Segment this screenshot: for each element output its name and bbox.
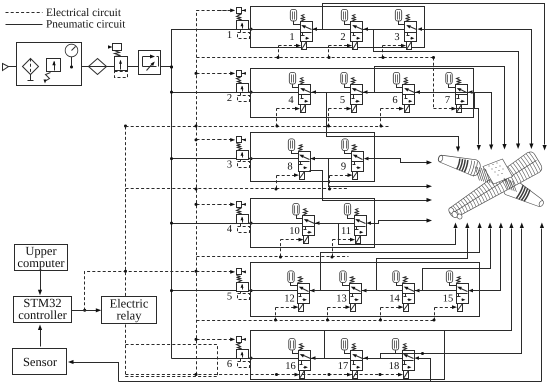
- box Sensor: [13, 349, 67, 375]
- valve V14: [381, 271, 420, 312]
- wire electrical riser valve V7 (from bus A): [433, 58, 435, 109]
- air inlet triangle: [3, 64, 9, 71]
- svg-text:11: 11: [341, 226, 351, 237]
- arrow into aircraft left 1: [427, 160, 433, 164]
- manifold box group E: [251, 263, 480, 317]
- arrow into aircraft top 1: [456, 147, 460, 153]
- node bus E riser V14: [379, 319, 382, 322]
- wire electrical riser valve V3: [382, 46, 384, 58]
- wire valve V17 output to bottom arrow 7: [368, 229, 522, 359]
- wire group D supply line: [251, 223, 355, 225]
- node bus E riser V13: [326, 319, 329, 322]
- arrow into relay: [96, 308, 102, 312]
- node bus branch C: [170, 157, 173, 160]
- svg-text:2: 2: [340, 32, 345, 43]
- wire electrical bus row B (dashed): [126, 126, 391, 128]
- manifold box group F: [251, 331, 445, 380]
- regulator R3: [219, 137, 250, 171]
- node bus / air-line junction: [170, 66, 173, 69]
- node group B inlet: [250, 91, 253, 94]
- wire electrical bus row A (dashed): [197, 57, 434, 59]
- legend pneumatic-circuit solid line: [6, 19, 127, 31]
- node bus E riser V12: [274, 319, 277, 322]
- valve V12: [276, 271, 315, 312]
- wire to left arrow 3: [310, 171, 427, 201]
- svg-text:7: 7: [445, 95, 450, 106]
- node crossing x196: [195, 270, 198, 273]
- node bus B riser V5: [327, 125, 330, 128]
- wire electrical riser valve V1: [278, 46, 280, 58]
- wire regulator R2 output: [249, 92, 251, 94]
- pressure gauge G1: [65, 44, 78, 66]
- node electrical branch R2: [195, 72, 198, 75]
- valve V11: [333, 203, 372, 243]
- node bus B x196: [195, 125, 198, 128]
- node bus C x196: [195, 188, 198, 191]
- arrow into stm32: [38, 290, 42, 296]
- wire electrical riser valve V4: [276, 109, 278, 127]
- wire valve V7 output stub: [472, 93, 475, 109]
- node bus A riser V7: [432, 56, 435, 59]
- valve V4: [277, 72, 317, 112]
- valve V7: [434, 72, 473, 112]
- node bus D riser V10: [279, 256, 282, 259]
- wire valve V4 output to top arrow 1: [316, 93, 459, 147]
- wire valve V9 output to left arrow 1: [368, 159, 427, 163]
- node group A inlet: [250, 28, 253, 31]
- manifold box group B: [251, 69, 474, 118]
- filter F1 (diamond with drain): [23, 59, 39, 81]
- valve V17: [329, 338, 369, 378]
- wire group F supply line: [251, 358, 403, 360]
- solenoid regulator on air line: [108, 44, 128, 78]
- node bus branch B: [170, 91, 173, 94]
- svg-text:Sensor: Sensor: [23, 355, 58, 369]
- svg-text:1: 1: [227, 30, 232, 41]
- regulator R6: [219, 337, 250, 370]
- node bus F riser V18: [379, 373, 382, 376]
- box Electric relay: [102, 296, 157, 323]
- wire branch to regulator RD: [172, 223, 237, 225]
- wire electrical riser valve V13: [327, 308, 329, 321]
- svg-text:13: 13: [336, 293, 347, 304]
- regulator R2: [219, 71, 250, 104]
- wire regulator R1 output: [249, 29, 251, 31]
- regulator R5: [219, 269, 250, 303]
- wire stm32 to relay: [72, 310, 97, 312]
- node bus C riser V8: [275, 188, 278, 191]
- wire electrical riser valve V15: [434, 308, 436, 321]
- valve V13: [328, 271, 367, 312]
- wire valve V11 output to left arrow 4: [371, 221, 427, 224]
- wire electrical branch to regulator R2: [197, 73, 219, 75]
- arrow into aircraft bottom 8: [540, 223, 544, 229]
- node bus branch E: [170, 289, 173, 292]
- arrow into aircraft bottom 1: [453, 223, 457, 229]
- wire valve V5 output to top arrow 4: [367, 67, 505, 145]
- arrow sensor-to-stm32: [38, 325, 42, 331]
- node bus branch D: [170, 222, 173, 225]
- svg-text:15: 15: [443, 293, 454, 304]
- regulator R1: [219, 8, 250, 41]
- wire electrical bus row D (dashed): [197, 256, 349, 258]
- wire electrical riser valve V9: [329, 176, 331, 189]
- node bus D riser V11: [331, 256, 334, 259]
- svg-text:2: 2: [227, 93, 232, 104]
- wire electrical left bus (dashed): [125, 127, 127, 345]
- node left bus top: [124, 125, 127, 128]
- valve V2: [329, 9, 369, 49]
- wire electrical riser valve V6: [380, 109, 382, 127]
- node bus F riser V17: [328, 373, 331, 376]
- wire electrical branch to regulator R4: [197, 204, 219, 206]
- wire electrical riser valve V8: [276, 176, 278, 189]
- node bus A riser V2: [328, 56, 331, 59]
- wire electrical bus row E (dashed): [197, 320, 434, 322]
- valve V16: [277, 338, 316, 378]
- svg-text:14: 14: [389, 293, 400, 304]
- node crossing x125: [124, 270, 127, 273]
- wire group C supply line: [251, 158, 352, 160]
- wire valve V14 output to bottom arrow 4: [419, 229, 491, 291]
- valve V5: [329, 72, 368, 112]
- svg-text:16: 16: [285, 361, 296, 372]
- svg-text:8: 8: [287, 161, 292, 172]
- wire branch to regulator RF: [172, 358, 237, 360]
- node bus C riser V9: [328, 188, 331, 191]
- wire electrical bus row F (dashed): [126, 374, 385, 376]
- wire valve V15 output to bottom arrow 5: [473, 229, 501, 291]
- wire electrical branch to regulator R6: [197, 339, 219, 341]
- arrow into sensor: [68, 360, 74, 364]
- node electrical branch R6: [195, 338, 198, 341]
- wire group A supply line: [251, 29, 405, 31]
- wire electrical main bus (vertical, dashed): [197, 11, 231, 375]
- wire valve V10 output to bottom arrow 1: [319, 224, 456, 245]
- svg-text:relay: relay: [117, 309, 143, 323]
- wire regulator R6 output: [249, 358, 251, 360]
- arrow into aircraft left 2: [427, 184, 433, 188]
- svg-text:6: 6: [227, 359, 232, 370]
- wire valve V12 output to bottom arrow 3: [314, 229, 480, 291]
- node bus B riser V6: [380, 125, 383, 128]
- node relay junction: [83, 309, 86, 312]
- regulator R4: [219, 202, 250, 235]
- wire electrical riser valve V10: [280, 240, 282, 257]
- wire electrical riser valve V2: [328, 46, 330, 58]
- valve V6: [381, 72, 421, 112]
- wire group B supply line: [251, 92, 456, 94]
- valve V18: [381, 338, 420, 378]
- svg-text:Pneumatic circuit: Pneumatic circuit: [46, 19, 126, 31]
- arrow into aircraft top 3: [489, 145, 493, 151]
- wire valve V8 output to left arrow 2: [315, 159, 427, 187]
- node group D inlet: [250, 222, 253, 225]
- wire valve V16 output to bottom arrow 6: [315, 229, 512, 359]
- svg-text:12: 12: [284, 293, 295, 304]
- wire bottom bus to bottom arrow 8: [541, 229, 543, 382]
- wire electrical riser valve V11: [332, 240, 334, 257]
- aircraft (morphing wing UAV drawing): [436, 149, 547, 223]
- arrow into aircraft bottom 5: [499, 223, 503, 229]
- svg-text:6: 6: [392, 95, 397, 106]
- arrow into aircraft bottom 2: [465, 223, 469, 229]
- wire electrical riser valve V14: [380, 308, 382, 321]
- node bus B riser V4: [276, 125, 279, 128]
- wire branch to regulator RE: [172, 290, 237, 292]
- svg-text:3: 3: [394, 32, 399, 43]
- svg-text:1: 1: [289, 32, 294, 43]
- arrow into aircraft left 3: [427, 198, 433, 202]
- wire electrical riser valve V5: [328, 109, 330, 127]
- svg-text:Electrical circuit: Electrical circuit: [46, 7, 122, 19]
- valve V1: [279, 9, 318, 49]
- manifold box group A: [251, 7, 425, 48]
- manifold box group D: [251, 199, 375, 248]
- valve V9: [330, 139, 369, 180]
- wire sensor to stm32: [40, 330, 42, 347]
- node bus A riser V1: [277, 56, 280, 59]
- wire valve V13 output to bottom arrow 2: [366, 229, 468, 291]
- wire regulator R3 output: [249, 158, 251, 160]
- node bus A riser V3: [382, 56, 385, 59]
- wire valve V6 output to top arrow 3: [420, 93, 492, 145]
- wire regulator R4 output: [249, 223, 251, 225]
- node electrical branch R4: [195, 203, 198, 206]
- box STM32 controller: [14, 296, 72, 323]
- wire upper-computer to stm32: [40, 270, 42, 291]
- wire regulator R5 output: [249, 290, 251, 292]
- svg-text:5: 5: [227, 291, 232, 302]
- node group E inlet: [250, 289, 253, 292]
- wire valve V3 output to top arrow 6: [422, 30, 532, 144]
- filter F2 (diamond): [89, 59, 107, 75]
- valve V10: [281, 203, 320, 243]
- svg-text:10: 10: [289, 226, 300, 237]
- wire valve V2 output to top arrow 5: [368, 30, 519, 144]
- manifold box group C: [251, 133, 375, 182]
- svg-text:3: 3: [227, 159, 232, 170]
- arrow into aircraft top 5: [516, 144, 520, 150]
- pressure regulator in service unit: [44, 59, 61, 84]
- svg-text:4: 4: [288, 95, 294, 106]
- node group F inlet: [250, 357, 253, 360]
- wire branch to regulator RC: [172, 158, 237, 160]
- wire to top arrow 2: [455, 109, 479, 145]
- svg-text:17: 17: [338, 361, 349, 372]
- wire valve V1 output to top arrow 7: [317, 4, 545, 145]
- arrow into aircraft bottom 3: [478, 223, 482, 229]
- valve V8: [277, 139, 316, 180]
- wire feedback line to sensor: [73, 363, 119, 382]
- arrow into aircraft top 2: [477, 145, 481, 151]
- svg-text:9: 9: [341, 161, 346, 172]
- check valve / throttle box: [139, 51, 161, 75]
- node bus F riser V16: [275, 373, 278, 376]
- svg-text:18: 18: [389, 361, 400, 372]
- box Upper computer: [15, 244, 68, 271]
- node bottom junction: [421, 352, 424, 355]
- node group C inlet: [250, 157, 253, 160]
- node main line / gauge junction: [70, 66, 73, 69]
- wire valve V18 output to bottom bus: [419, 359, 431, 382]
- arrow into aircraft top 4: [502, 144, 506, 150]
- electrical dashed enclosure (regulator R6 zone): [126, 345, 218, 377]
- valve V15: [435, 271, 474, 312]
- arrow into aircraft top 6: [529, 144, 533, 150]
- wire electrical riser valve V12: [275, 308, 277, 321]
- wire pneumatic supply bus (vertical): [172, 30, 237, 359]
- air service unit box: [17, 43, 82, 86]
- wire electrical line relay to R5: [85, 272, 219, 311]
- wire electrical branch to regulator R3: [197, 139, 219, 141]
- svg-text:4: 4: [227, 224, 233, 235]
- node bus F x196: [195, 373, 198, 376]
- arrow into aircraft top 7: [543, 145, 547, 151]
- arrow into aircraft left 4: [427, 218, 433, 222]
- wire electrical bus row C (dashed): [126, 188, 349, 190]
- node supply junction: [170, 66, 173, 69]
- valve V3: [383, 9, 423, 49]
- svg-text:computer: computer: [17, 256, 65, 270]
- svg-text:5: 5: [340, 95, 345, 106]
- svg-text:controller: controller: [18, 308, 67, 322]
- wire main air line: [9, 66, 172, 68]
- arrow into aircraft bottom 4: [488, 223, 492, 229]
- legend electrical-circuit dashed line: [6, 7, 122, 19]
- node bus E riser V15: [433, 319, 436, 322]
- arrow into aircraft bottom 7: [520, 223, 524, 229]
- node electrical branch R3: [195, 138, 198, 141]
- wire group E supply line: [251, 290, 457, 292]
- wire bottom pneumatic bus: [119, 381, 542, 383]
- arrow into aircraft bottom 6: [509, 223, 513, 229]
- wire branch to regulator RB: [172, 92, 237, 94]
